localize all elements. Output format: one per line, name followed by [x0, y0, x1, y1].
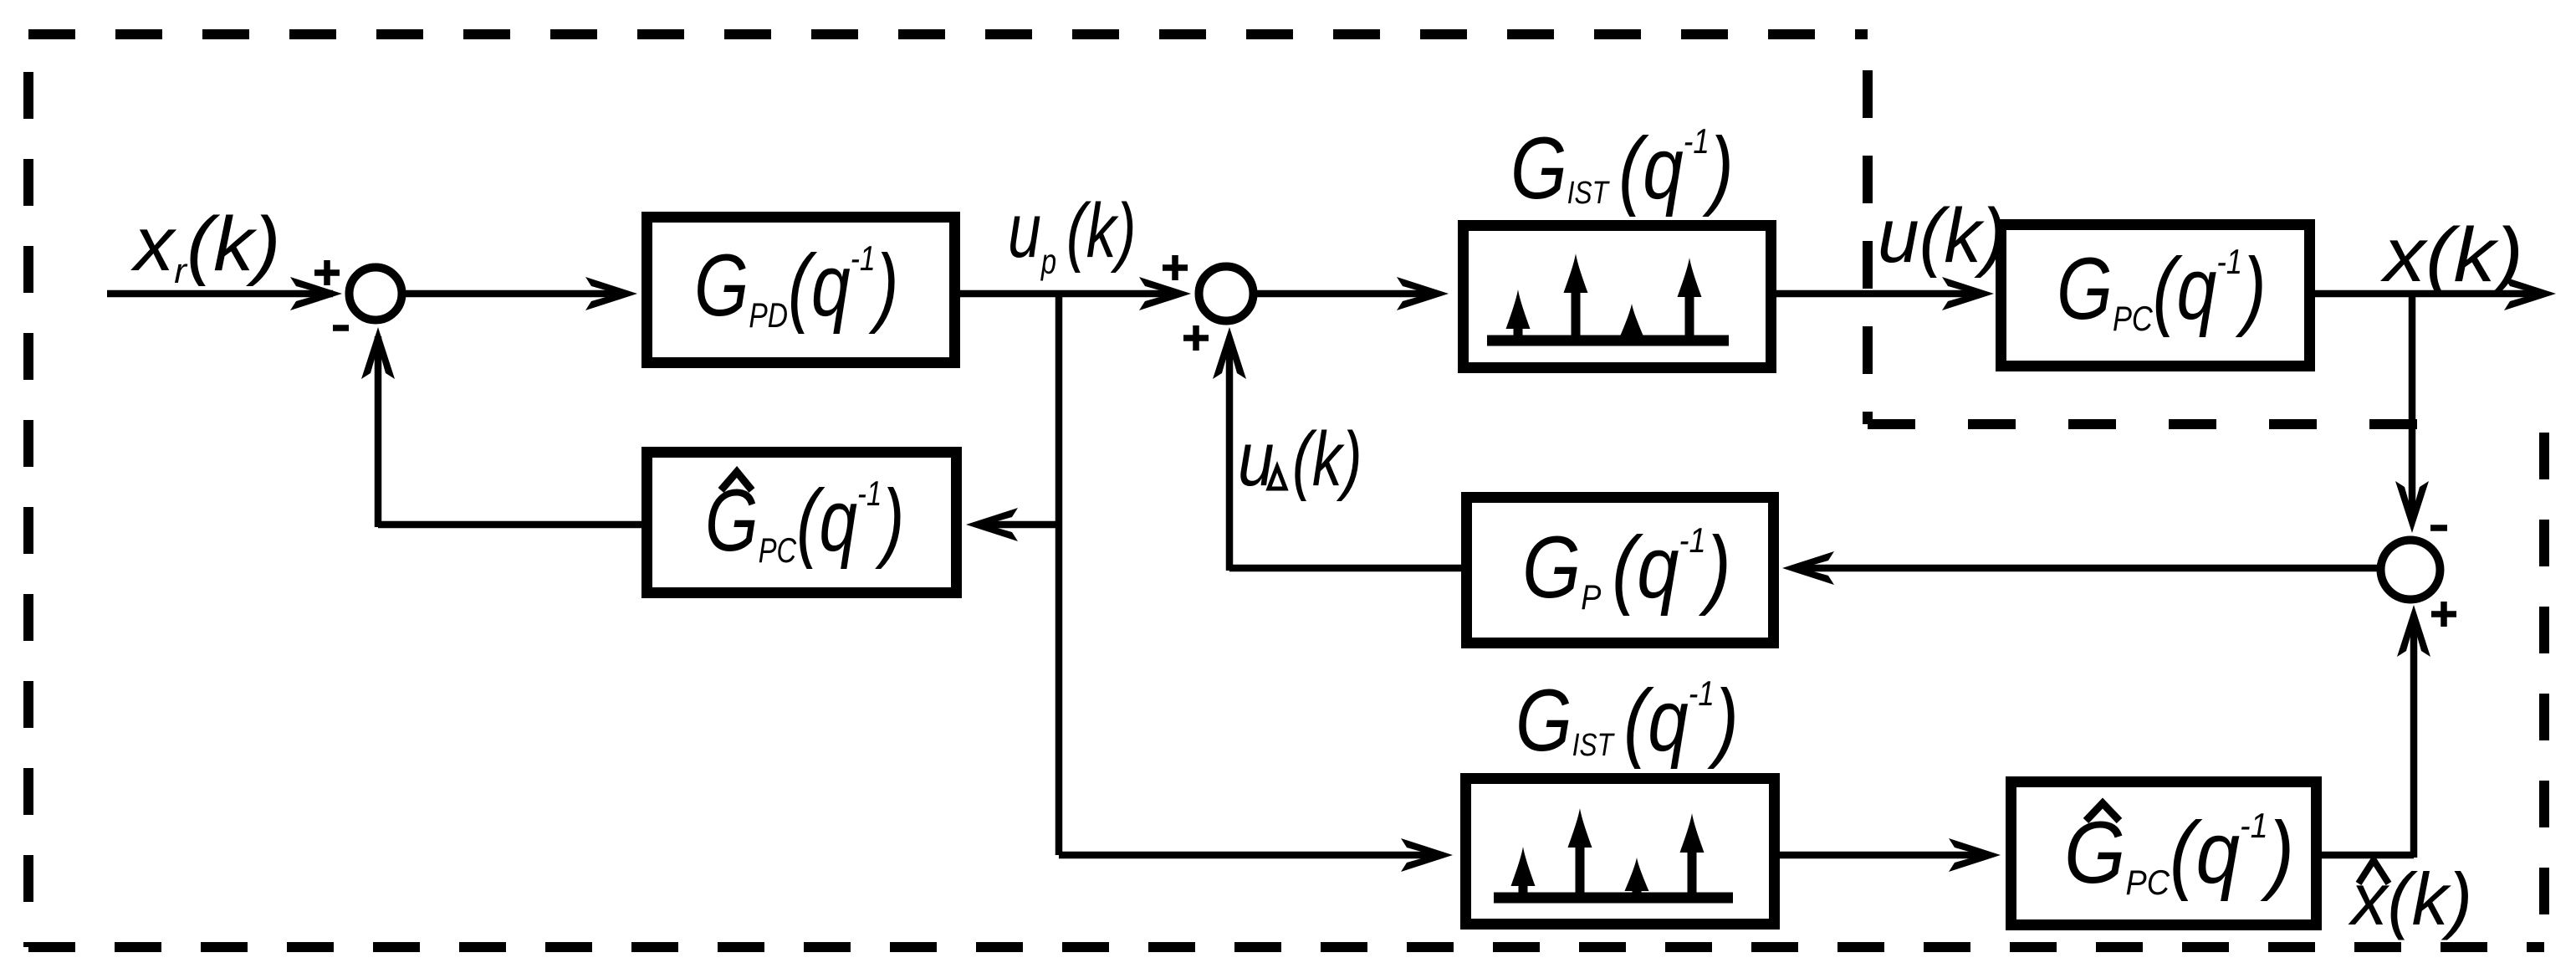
icon impulse train top: impulse 4 — [1685, 293, 1694, 341]
block GIST top — [1464, 226, 1771, 368]
dashed boundary: bottom edge — [28, 942, 2544, 952]
wire GPD to S2 — [960, 290, 1178, 298]
S3 minus sign — [2430, 525, 2447, 531]
dashed boundary: top edge of controller region — [28, 29, 1868, 39]
wire branch x(k) down to S3 — [2409, 294, 2416, 506]
summing junction S3 — [2381, 540, 2441, 600]
wire GPChat bottom out to S3 — [2322, 623, 2414, 858]
hat over G of GPChat bottom — [2086, 803, 2119, 821]
svg-text:xr(k): xr(k) — [130, 201, 281, 291]
wire GP out u_delta to S2 — [1229, 339, 1461, 571]
icon impulse train top: impulse 2 — [1572, 289, 1581, 341]
icon impulse train top: impulse 3 — [1628, 335, 1637, 341]
wire u_p branch into GPChat left — [980, 521, 1059, 529]
icon impulse train top: impulse 1 — [1514, 322, 1523, 341]
wire branch of u_p down — [1055, 294, 1063, 855]
dashed boundary: middle horizontal at y=507 — [1868, 419, 2442, 429]
block GP — [1467, 498, 1774, 643]
node u_delta triangle subscript — [1269, 467, 1285, 489]
icon impulse train bottom: impulse 2 — [1576, 843, 1585, 898]
svg-text:(k): (k) — [1292, 416, 1362, 502]
dashed boundary: lower right vertical at x=3042 — [2539, 433, 2549, 947]
wire bottom branch to GIST bottom — [1059, 852, 1437, 859]
block GPD — [647, 218, 955, 363]
S1 minus sign — [333, 325, 349, 331]
wire GPChat left out to S1 — [378, 336, 641, 527]
S2 plus sign lower — [1183, 325, 1209, 351]
svg-text:x(k): x(k) — [2380, 213, 2523, 298]
S3 plus sign — [2431, 602, 2456, 627]
hat over G of GPChat left — [721, 472, 752, 490]
block GPChat left — [647, 453, 957, 593]
wire S1 to GPD — [406, 290, 623, 298]
dashed boundary: left edge — [23, 72, 33, 947]
wire S2 to GIST top — [1257, 290, 1434, 298]
dashed boundary: upper right vertical at x=2233 — [1863, 70, 1873, 424]
icon impulse train top: baseline — [1487, 335, 1729, 346]
block GPChat bottom — [2011, 782, 2317, 925]
wire S3 to GP — [1798, 565, 2380, 572]
wire GIST top to GPC plant — [1776, 290, 1981, 298]
wire input x_r(k) — [107, 290, 333, 298]
icon impulse train bottom: impulse 4 — [1688, 848, 1697, 898]
S2 plus sign upper — [1163, 255, 1188, 280]
icon impulse train bottom: baseline — [1494, 893, 1733, 904]
hat over x of xhat(k) — [2359, 860, 2389, 883]
wire GIST bottom to GPChat bottom — [1780, 852, 1986, 859]
svg-text:u(k): u(k) — [1878, 193, 2006, 279]
svg-text:up(k): up(k) — [1008, 187, 1137, 280]
icon impulse train bottom: impulse 1 — [1519, 878, 1528, 898]
summing junction S1 — [350, 268, 402, 320]
summing junction S2 — [1199, 267, 1254, 321]
S1 plus sign — [314, 260, 340, 285]
icon impulse train bottom: impulse 3 — [1633, 889, 1642, 898]
block GIST bottom — [1466, 779, 1775, 924]
block GPC plant — [2001, 225, 2310, 366]
wire GPC plant to x(k) output — [2315, 290, 2543, 298]
